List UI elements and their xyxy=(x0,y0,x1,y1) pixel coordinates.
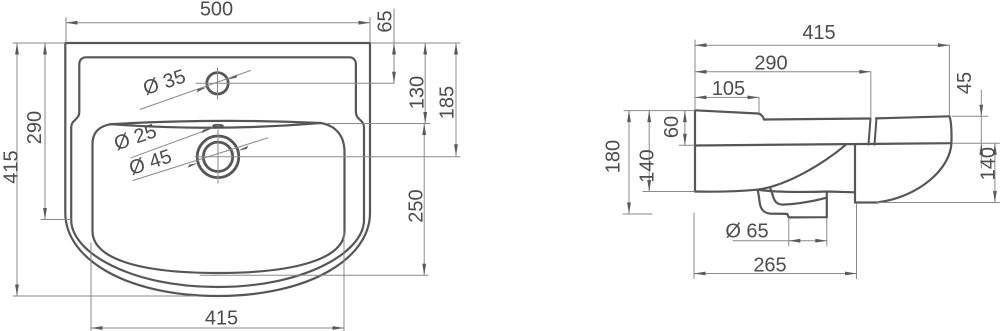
side left extension up xyxy=(694,40,696,110)
dim 415 side arrow left xyxy=(695,43,707,47)
dim 415 left arrow bottom xyxy=(15,285,19,297)
bowl lower shallow line xyxy=(757,190,855,193)
slab left edge xyxy=(694,110,696,191)
right quarter arc xyxy=(877,143,951,202)
leader arrow at overflow xyxy=(202,128,213,133)
dim 185 arrow top xyxy=(454,43,458,55)
dim 500 arrow left xyxy=(66,21,78,25)
dim 180 text xyxy=(603,140,625,173)
dim 415 bottom arrow right xyxy=(333,326,345,330)
dim Ø65 arrow right (outward) xyxy=(815,239,827,243)
dim 500 arrow right xyxy=(359,21,371,25)
side 415 extension right xyxy=(948,45,950,116)
slab top step xyxy=(758,114,764,120)
side 140 extension tick xyxy=(643,191,694,193)
dim 140 left line xyxy=(648,111,650,192)
dim 290 side arrow left xyxy=(695,70,707,74)
overflow hole ellipse Ø25 xyxy=(213,125,223,127)
faucet hole circle Ø35 xyxy=(207,73,228,94)
dim 45 extension tick bottom xyxy=(953,142,1000,144)
side left top extension tick xyxy=(624,110,694,112)
svg-text:265: 265 xyxy=(753,255,786,277)
slab top edge right of joint xyxy=(876,116,949,118)
dim 140 right arrow top xyxy=(993,143,997,155)
dim 105 side arrow right xyxy=(748,96,760,100)
Ø65 extension right xyxy=(826,219,828,246)
joint line back xyxy=(875,118,877,144)
dim 65 text xyxy=(375,10,397,32)
dim 415 left line xyxy=(16,43,18,296)
svg-text:140: 140 xyxy=(978,147,1000,180)
side 60 extension tick xyxy=(679,144,694,146)
bowl bottom extension to 250 xyxy=(200,274,428,276)
dim 185 line xyxy=(455,43,457,156)
dim 45 line xyxy=(980,90,982,168)
Ø65 extension left xyxy=(788,219,790,246)
dim 415 side line xyxy=(695,44,949,46)
dim 250 text xyxy=(406,189,428,222)
label Ø25 xyxy=(111,120,159,155)
dim 290 left arrow bottom xyxy=(43,208,47,220)
slab top edge right of step xyxy=(764,119,870,120)
dim 45 arrow upper (outside) xyxy=(979,105,983,117)
drain center line to 185-dim xyxy=(195,156,460,158)
leader arrow at faucet left xyxy=(197,87,207,92)
dim 415 left bottom extension xyxy=(13,295,195,297)
dim 290 left bottom extension xyxy=(41,219,71,221)
svg-text:290: 290 xyxy=(754,52,787,74)
right top extension line xyxy=(371,42,460,44)
dim 290 side arrow right xyxy=(859,70,871,74)
dim 65 arrow top xyxy=(392,43,396,55)
slab right end edge xyxy=(949,116,951,143)
dim 65 line xyxy=(393,9,395,83)
leader arrow at drain upper-right xyxy=(238,146,249,151)
dim 140 right arrow bottom xyxy=(993,191,997,203)
foot outer outline xyxy=(758,190,827,218)
basin inner rim line xyxy=(71,57,364,287)
joint line front xyxy=(869,119,871,145)
leader line Ø25 xyxy=(131,128,213,158)
bowl underside sweep xyxy=(695,145,845,191)
svg-text:105: 105 xyxy=(712,78,745,100)
drain crosshair vertical xyxy=(217,130,219,183)
dim 180 line xyxy=(628,111,630,214)
dim 290 side line xyxy=(695,71,871,73)
dim 180 arrow bottom xyxy=(627,203,631,215)
svg-text:45: 45 xyxy=(954,72,976,94)
dim 290 left line xyxy=(44,43,46,220)
265 extension left xyxy=(693,213,695,279)
dim 140 left arrow bottom xyxy=(647,180,651,192)
dim 185 arrow bottom xyxy=(454,144,458,156)
label Ø45 xyxy=(126,146,174,180)
bowl upper back-rim arc xyxy=(111,121,321,124)
dim 415 left text xyxy=(1,150,23,183)
dim 60 line xyxy=(684,111,686,146)
faucet hole crosshair vertical xyxy=(217,68,219,99)
side 290 extension xyxy=(870,72,872,118)
dim 265 arrow right xyxy=(845,272,857,276)
dim 250 line xyxy=(423,124,425,276)
faucet hole center line to 65-dim xyxy=(196,82,394,84)
dim 105 side line xyxy=(695,96,759,98)
dim 60 text xyxy=(661,116,683,138)
side 180 extension tick xyxy=(623,213,652,215)
svg-text:290: 290 xyxy=(24,111,46,144)
dim 130 arrow top xyxy=(423,43,427,55)
svg-text:60: 60 xyxy=(661,116,683,138)
dim 500 extension right xyxy=(369,18,371,43)
265 extension right xyxy=(856,204,858,279)
slab bottom edge xyxy=(695,143,951,145)
dim 105 side arrow left xyxy=(695,96,707,100)
side 105 extension xyxy=(758,97,760,113)
drain outer circle Ø65 xyxy=(197,136,239,178)
leader line Ø45 xyxy=(133,138,268,181)
dim 415 bottom line xyxy=(91,327,344,329)
dim 415 bottom arrow left xyxy=(91,326,103,330)
leader arrow at drain lower-left xyxy=(188,163,199,168)
dim 265 arrow left xyxy=(694,272,706,276)
bowl lower opening arc xyxy=(111,123,321,128)
dim 45 arrow lower (outside) xyxy=(979,143,983,155)
trap inner line xyxy=(770,188,825,204)
dim 140 left text xyxy=(637,149,659,182)
dim 290 left text xyxy=(24,111,46,144)
bottom 415 extension right xyxy=(343,232,345,331)
dim 45 extension tick top xyxy=(952,115,988,117)
dim 130 arrow bottom xyxy=(423,112,427,124)
bottom 415 extension left xyxy=(90,243,92,331)
leader arrow at faucet right xyxy=(227,75,237,80)
svg-text:250: 250 xyxy=(406,189,428,222)
slab top edge left of step xyxy=(695,110,758,113)
dim 60 arrow bottom xyxy=(683,134,687,146)
dim Ø65 arrow left (outward) xyxy=(789,239,801,243)
leader line Ø35 xyxy=(140,71,250,110)
dim 60 arrow top xyxy=(683,111,687,123)
svg-text:415: 415 xyxy=(802,22,835,44)
svg-text:130: 130 xyxy=(407,76,429,109)
svg-text:185: 185 xyxy=(437,86,459,119)
dim 180 arrow top xyxy=(627,111,631,123)
dim 130 line xyxy=(424,43,426,124)
dim 500 line xyxy=(66,22,370,24)
dim 415 side arrow right xyxy=(938,43,950,47)
dim 45 text xyxy=(954,72,976,94)
top extension line left of shell xyxy=(13,42,65,44)
bowl rim extension line to 130 xyxy=(326,123,430,125)
dim 140 right line xyxy=(994,143,996,202)
svg-text:415: 415 xyxy=(1,150,23,183)
svg-text:65: 65 xyxy=(375,10,397,32)
dim 415 left arrow top xyxy=(15,43,19,55)
dim 250 arrow top xyxy=(422,124,426,136)
dim Ø65 line xyxy=(733,240,827,242)
basin outer shell outline xyxy=(65,43,370,296)
svg-text:140: 140 xyxy=(637,149,659,182)
bowl body outline xyxy=(93,123,345,273)
dim 290 left arrow top xyxy=(43,43,47,55)
dim 185 text xyxy=(437,86,459,119)
svg-text:Ø 65: Ø 65 xyxy=(725,221,768,243)
dim 500 extension left xyxy=(65,18,67,43)
svg-text:180: 180 xyxy=(603,140,625,173)
bowl bottom extension to 140 right xyxy=(877,202,1000,204)
dim 250 arrow bottom xyxy=(422,264,426,276)
dim 130 text xyxy=(407,76,429,109)
svg-text:415: 415 xyxy=(205,308,238,330)
drain inner circle Ø45 xyxy=(203,142,232,171)
dim 140 right text xyxy=(978,147,1000,180)
bowl front vertical line xyxy=(854,145,856,202)
bowl front bottom segment xyxy=(855,201,877,203)
dim 65 arrow bottom xyxy=(392,72,396,84)
label Ø35 xyxy=(140,66,188,100)
dim 265 line xyxy=(694,273,857,275)
dim 140 left arrow top xyxy=(647,111,651,123)
svg-text:500: 500 xyxy=(200,0,233,21)
